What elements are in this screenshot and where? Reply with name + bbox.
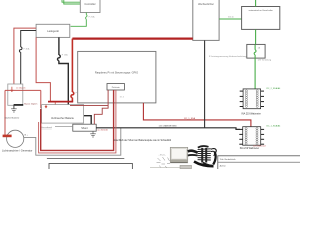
wire gray generator ground loop bbox=[24, 128, 121, 155]
svg-text:Author: Author bbox=[220, 164, 226, 167]
wire red charger bottom left to house battery plus bbox=[36, 37, 50, 101]
svg-text:12V_MASSE/GND: 12V_MASSE/GND bbox=[159, 125, 178, 128]
photo top wire mass bbox=[198, 146, 209, 148]
solar controller U1 bbox=[80, 0, 100, 13]
svg-text:+ Shunt -: + Shunt - bbox=[159, 153, 167, 156]
wire red house battery plus horizontal bbox=[48, 101, 73, 103]
wire red main 12V bus thick bbox=[72, 37, 192, 39]
svg-text:rot 16qmm: rot 16qmm bbox=[16, 86, 26, 89]
charger Ladegeraet bbox=[36, 24, 70, 37]
svg-text:F 20A: F 20A bbox=[89, 15, 95, 18]
svg-text:INA 219 Wattmeter: INA 219 Wattmeter bbox=[240, 147, 260, 150]
wire red starter battery plus bbox=[5, 89, 41, 91]
generator G1 bbox=[7, 130, 24, 147]
terminal mark bbox=[45, 105, 47, 108]
svg-text:F 16A: F 16A bbox=[62, 53, 68, 56]
svg-text:Ladegerät: Ladegerät bbox=[47, 29, 59, 33]
svg-text:an_Verteiler: an_Verteiler bbox=[97, 129, 108, 132]
shunt R1 bbox=[73, 124, 96, 131]
wire green through fusebox with fuse bbox=[254, 44, 256, 58]
svg-text:Controller: Controller bbox=[84, 2, 95, 6]
wire maroon gpio pair to battery sense bbox=[41, 90, 114, 150]
title block bbox=[218, 156, 302, 171]
svg-text:Raspberry Pi mit Steuerungspr.: Raspberry Pi mit Steuerungspr. GPIO bbox=[95, 71, 138, 75]
ground under shunt bbox=[92, 131, 94, 133]
wire red house battery plus terminal bbox=[54, 102, 56, 107]
photo cable bundle bbox=[188, 151, 198, 153]
wire maroon gpio to shunt bbox=[94, 90, 108, 124]
wire solar panel green pair bbox=[62, 0, 80, 4]
fuse distribution box bbox=[247, 44, 265, 58]
photo right wire loops bbox=[211, 149, 216, 154]
photo of shunt wiring bbox=[150, 146, 216, 169]
svg-text:Pinleiste: Pinleiste bbox=[112, 86, 121, 89]
svg-text:Lichtmaschine / Generator: Lichtmaschine / Generator bbox=[2, 149, 33, 153]
svg-text:Masseband: Masseband bbox=[41, 127, 53, 129]
wire green inverter to switch bbox=[219, 18, 242, 20]
photo device body bbox=[170, 147, 187, 162]
photo bottom cable bbox=[194, 162, 214, 167]
starter battery B1 bbox=[8, 84, 26, 105]
svg-text:Masse 16qmm: Masse 16qmm bbox=[24, 104, 37, 106]
wire red pi to INA219 chip B bbox=[143, 103, 251, 127]
svg-text:Verbraucher Batterie: Verbraucher Batterie bbox=[51, 117, 75, 120]
svg-text:12V Verteilung: 12V Verteilung bbox=[258, 59, 272, 62]
svg-text:DC in: DC in bbox=[228, 17, 234, 19]
ground under starter battery bbox=[11, 109, 17, 112]
plus terminal bbox=[11, 87, 13, 92]
wire black charger to starter battery minus with fuse bbox=[19, 31, 36, 105]
svg-text:F 30A: F 30A bbox=[24, 47, 30, 50]
wire gray masseband bbox=[55, 126, 73, 128]
svg-text:I2C_1_SDA: I2C_1_SDA bbox=[184, 117, 196, 120]
INA219 chip A bbox=[240, 89, 264, 109]
wire green from top to switch bbox=[255, 0, 257, 7]
wire black starter battery minus strap bbox=[14, 104, 24, 106]
INA219 chip B bbox=[239, 127, 264, 146]
svg-text:INA 219 Wattmeter: INA 219 Wattmeter bbox=[242, 112, 262, 115]
photo left tiny schematic bbox=[157, 157, 171, 168]
wire black ground bus shunt to chips bbox=[96, 128, 240, 130]
wire red thick into generator bbox=[3, 135, 12, 138]
svg-text:R Leistungsmessung Verbraucher: R Leistungsmessung Verbraucherleitung bbox=[209, 55, 247, 58]
photo connector strip bbox=[198, 149, 211, 160]
pin header box bbox=[107, 84, 124, 91]
raspberry pi box bbox=[78, 51, 156, 103]
svg-text:I2C_1_SDA/A4: I2C_1_SDA/A4 bbox=[266, 125, 281, 128]
automatic switch box bbox=[242, 7, 280, 30]
photo small part below bbox=[180, 165, 192, 168]
svg-text:Wechselrichter: Wechselrichter bbox=[198, 3, 214, 6]
house battery B2 Verbraucher Batterie bbox=[42, 105, 84, 124]
bottom distribution box bbox=[49, 164, 132, 172]
wire red charger to starter battery bbox=[14, 28, 36, 90]
inverter Wechselrichter bbox=[193, 0, 219, 40]
svg-text:Title: Bordelektrik: Title: Bordelektrik bbox=[220, 158, 237, 161]
wire green controller to charger with fuse F20A bbox=[71, 13, 87, 27]
wire black inverter ground drop bbox=[204, 40, 206, 127]
wire green fusebox to chip A bbox=[254, 58, 256, 89]
wire green switch to fusebox bbox=[255, 29, 257, 44]
svg-text:Shunt: Shunt bbox=[81, 127, 88, 130]
wire maroon sense to battery plus bbox=[70, 104, 108, 106]
wire black charger bottom with fuse F16A to house battery minus bbox=[58, 37, 92, 124]
svg-text:automatischer Umschalter: automatischer Umschalter bbox=[249, 9, 273, 12]
wire red bus drop with fuse to house battery plus bbox=[71, 39, 74, 102]
svg-text:Starter Batterie: Starter Batterie bbox=[5, 116, 20, 119]
svg-text:Anschluß der Shunt an Batterie: Anschluß der Shunt an Batteriespule wie … bbox=[114, 139, 172, 142]
svg-text:I2C_2_SDA/A4: I2C_2_SDA/A4 bbox=[266, 87, 281, 90]
wire gray second bottom line bbox=[47, 157, 124, 159]
